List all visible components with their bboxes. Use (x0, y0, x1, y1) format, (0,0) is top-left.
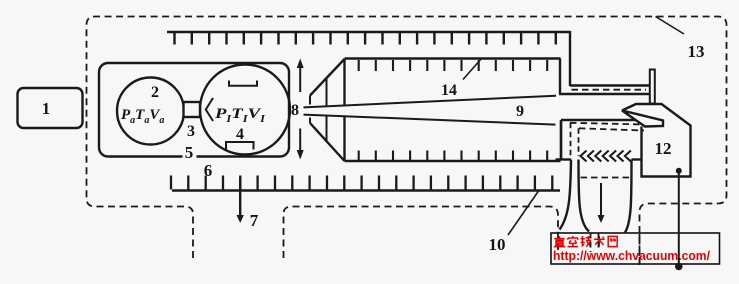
svg-text:4: 4 (236, 126, 244, 143)
white gap for label 5 (183, 145, 197, 159)
arrow up (8) (299, 67, 301, 92)
leader line to 10 (508, 191, 539, 235)
circle 2 (stagnation volume) (117, 78, 184, 145)
bottom wall hatch ticks (171, 176, 552, 190)
lower channel step to leg (556, 158, 572, 160)
leader line to 14 (463, 59, 482, 80)
dashed enclosure wall 13 (main path) (87, 17, 727, 266)
chimney tube on housing (650, 70, 655, 104)
svg-text:7: 7 (250, 211, 259, 230)
svg-text:10: 10 (489, 235, 506, 254)
left pump leg inner line (579, 160, 590, 232)
valve square 3 (184, 102, 201, 117)
right leg step to housing (632, 158, 642, 160)
dashed enclosure wall (bottom middle segment) (284, 207, 559, 259)
svg-text:14: 14 (441, 82, 457, 99)
skimmer cone bottom slant (310, 123, 345, 161)
skimmer cone top slant (310, 59, 345, 96)
upper exit channel top line (570, 84, 649, 86)
electrode terminal dot (top) (676, 168, 682, 174)
chamber 14 inner hatch ticks bottom (359, 151, 548, 161)
enclosure dash over watermark (639, 234, 641, 264)
top outer wall (hatched) (167, 31, 570, 34)
chamber 14 inner hatch ticks top (359, 60, 548, 71)
electrode bracket (top, inside circle 4) (229, 81, 257, 86)
svg-text:3: 3 (187, 123, 195, 140)
svg-text:PaTaVa: PaTaVa (121, 107, 164, 126)
arrow down (8) (299, 129, 301, 152)
electrode terminal dot (bottom) (675, 263, 683, 271)
dashed vertical a (570, 123, 572, 158)
circle 4 (ionization volume) (200, 65, 290, 155)
electrode wire (678, 171, 680, 266)
inlet wedge into volume 4 (206, 98, 213, 121)
svg-text:13: 13 (688, 42, 705, 61)
upper exit channel bottom line (559, 93, 649, 95)
electrode bracket (bottom, inside circle 4) (226, 142, 254, 150)
molecular beam line (lower) (304, 115, 556, 125)
lower channel left wall (560, 120, 562, 160)
svg-text:http://www.chvacuum.com/: http://www.chvacuum.com/ (553, 248, 710, 263)
svg-text:1: 1 (42, 99, 51, 118)
svg-text:5: 5 (185, 143, 194, 162)
dashed vertical b (578, 128, 580, 156)
top wall right step (569, 31, 571, 86)
leader line to 13 (656, 17, 685, 35)
lower channel dashed line b (579, 128, 644, 130)
watermark box (551, 233, 720, 264)
cone orifice verticals (310, 78, 327, 141)
svg-text:9: 9 (516, 103, 524, 120)
leg dashed continuations over watermark (591, 233, 599, 252)
box 1 (gas supply) (18, 88, 83, 128)
watermark text line 1 (554, 236, 617, 247)
molecular beam line (upper) (304, 96, 557, 108)
right pump leg line (625, 160, 632, 233)
svg-text:2: 2 (151, 84, 159, 101)
svg-text:8: 8 (291, 102, 299, 119)
dashed line under chevrons (581, 177, 632, 179)
arrow 7 (pump flow down) (239, 177, 241, 216)
left pump leg outer line (560, 160, 572, 230)
upper channel dashed axis (572, 89, 647, 91)
lower channel dashed line a (570, 123, 644, 125)
chamber 5 (rounded rect source chamber) (99, 63, 289, 157)
deflector plate (wedge) (622, 111, 663, 127)
drift chamber 14 rectangle edges (345, 59, 562, 162)
svg-text:6: 6 (204, 161, 213, 180)
svg-text:PITIVI: PITIVI (215, 106, 266, 125)
detector housing 12 (622, 104, 691, 177)
bottom outer wall (hatched) (172, 189, 560, 192)
flow arrow down (between legs) (600, 183, 602, 216)
top wall hatch ticks (175, 33, 556, 45)
lower exit channel top line (561, 119, 649, 121)
ion flow chevrons (581, 151, 631, 162)
svg-text:12: 12 (655, 139, 672, 158)
